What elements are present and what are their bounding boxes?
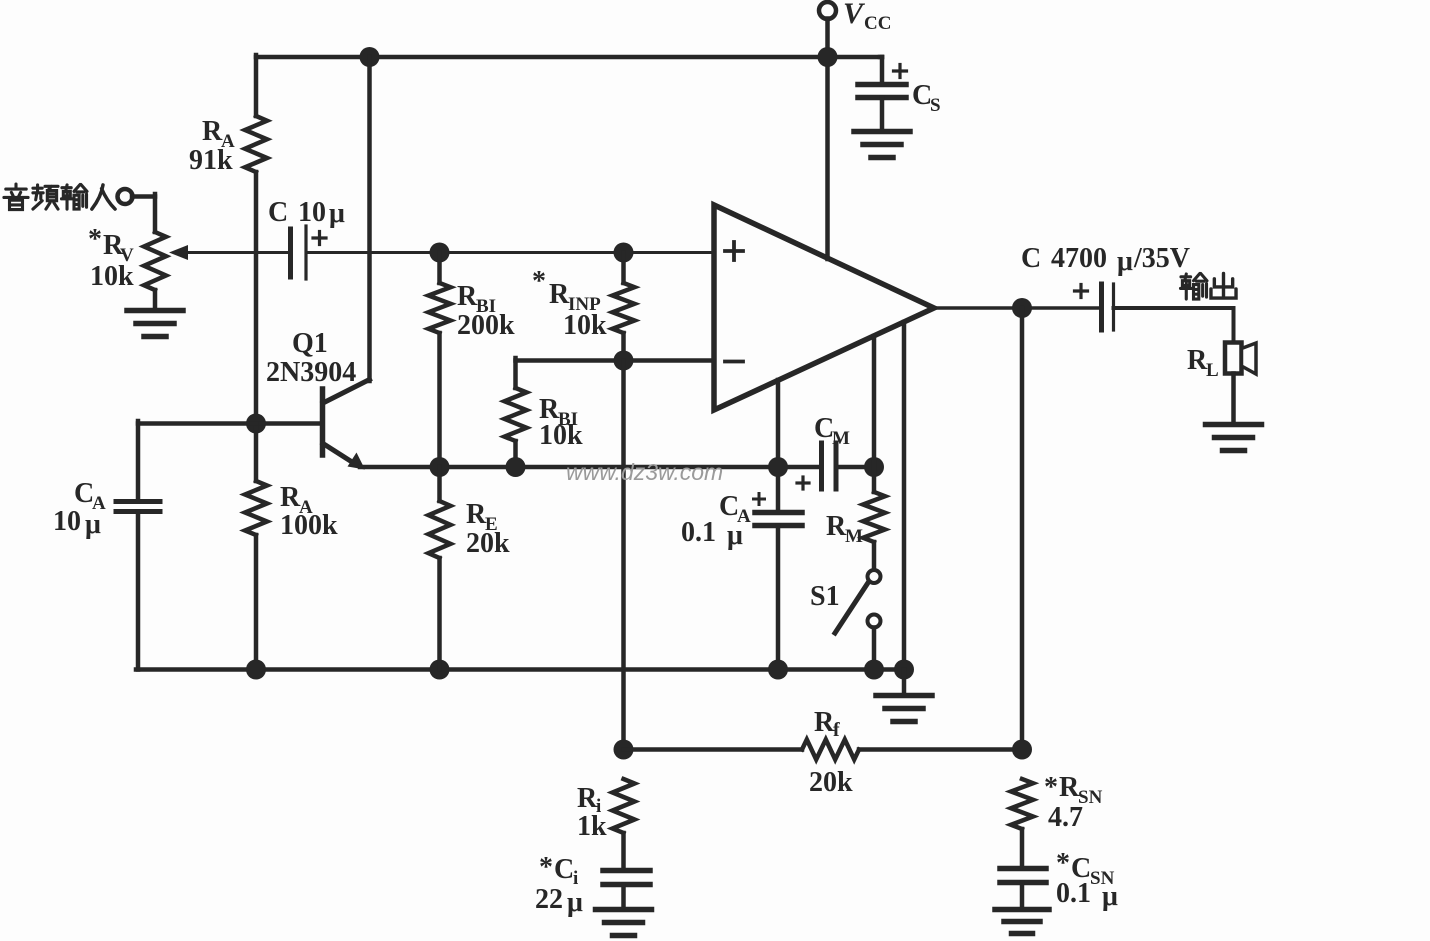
svg-text:R: R <box>457 281 478 312</box>
svg-text:*: * <box>1044 772 1058 803</box>
terminal VCC <box>819 2 836 19</box>
op-amp U1 <box>714 205 934 410</box>
wire base to CA branch <box>138 421 256 500</box>
op-amp minus sign <box>725 360 743 364</box>
terminal audio input <box>118 189 133 204</box>
label CA left <box>74 478 106 514</box>
node emitter RBI200k <box>430 457 450 477</box>
svg-text:R: R <box>814 707 835 738</box>
svg-text:Q1: Q1 <box>292 328 328 359</box>
label RV <box>88 224 134 266</box>
transistor Q1 2N3904 <box>323 380 370 470</box>
svg-text:*: * <box>539 852 553 883</box>
wire Rf left <box>624 747 803 752</box>
svg-text:V: V <box>843 0 866 30</box>
svg-text:i: i <box>573 868 578 889</box>
capacitor CM <box>822 443 837 489</box>
label 91k <box>189 145 233 176</box>
node top rail to collector <box>360 47 380 67</box>
svg-text:R: R <box>466 499 487 530</box>
speaker RL <box>1225 343 1256 375</box>
label RINP <box>532 266 601 315</box>
label S1 <box>810 581 840 612</box>
wire op-amp output <box>934 306 1100 310</box>
svg-text:C: C <box>268 197 288 228</box>
resistor RM <box>863 492 885 542</box>
ground below Ci <box>596 910 652 936</box>
node RBI200k top <box>430 243 450 263</box>
svg-text:L: L <box>1206 360 1219 381</box>
wire RBI10k upper <box>513 358 518 388</box>
wire VCC column <box>825 19 830 260</box>
wire Cs to ground <box>880 98 885 132</box>
wire Ci to ground <box>621 885 626 910</box>
svg-text:R: R <box>826 511 847 542</box>
label Q1 <box>292 328 328 359</box>
svg-text:10: 10 <box>298 197 326 228</box>
svg-text:10: 10 <box>53 506 81 537</box>
svg-text:R: R <box>549 279 570 310</box>
wire inverting input <box>516 358 715 363</box>
plus CA01 <box>754 494 765 505</box>
capacitor C 4700u/35V <box>1102 284 1114 330</box>
wire RA bias column mid <box>254 172 259 424</box>
svg-text:www.dz3w.com: www.dz3w.com <box>566 459 723 485</box>
node output <box>1012 298 1032 318</box>
node ground rail end <box>894 660 914 680</box>
svg-text:2N3904: 2N3904 <box>266 357 356 388</box>
svg-text:0.1: 0.1 <box>681 517 716 548</box>
svg-text:20k: 20k <box>809 767 853 798</box>
capacitor CSN 0.1u <box>1000 869 1046 883</box>
svg-text:0.1: 0.1 <box>1056 878 1091 909</box>
label RV 10k <box>90 261 134 292</box>
resistor Rf 20k <box>802 740 859 760</box>
label audio input 音频输入 <box>4 184 115 210</box>
wire ground stub <box>902 670 907 696</box>
svg-text:*: * <box>1056 848 1070 879</box>
svg-text:μ: μ <box>329 198 345 229</box>
wire input to pot <box>132 194 155 232</box>
node feedback Ri <box>614 740 634 760</box>
svg-text:R: R <box>280 482 301 513</box>
svg-text:C: C <box>554 854 574 885</box>
label RBI10k <box>539 394 578 430</box>
resistor RINP 10k <box>613 283 635 333</box>
ground below RL <box>1206 425 1262 451</box>
label CS <box>912 80 941 116</box>
svg-text:10k: 10k <box>539 420 583 451</box>
node RA100k bottom <box>246 660 266 680</box>
ground below op-amp <box>876 696 932 722</box>
node emitter CA01 <box>768 457 788 477</box>
capacitor CA 0.1u <box>755 513 802 526</box>
label Ci <box>539 852 578 889</box>
label RBI200k <box>457 281 496 317</box>
label RE 20k <box>466 528 510 559</box>
label 2N3904 <box>266 357 356 388</box>
svg-text:91k: 91k <box>189 145 233 176</box>
label RSN 4.7 <box>1048 802 1083 833</box>
wire RA100k lower <box>254 535 259 670</box>
capacitor C 10u <box>291 226 307 279</box>
label Rf <box>814 707 840 741</box>
node emitter RBI10k <box>506 457 526 477</box>
label Ri <box>577 783 601 817</box>
resistor RSN 4.7 <box>1011 779 1033 829</box>
node VCC rail <box>818 47 838 67</box>
node RINP top <box>614 243 634 263</box>
label RE <box>466 499 498 535</box>
resistor Ri 1k <box>613 779 635 833</box>
resistor RBI 10k <box>505 388 527 441</box>
svg-text:μ: μ <box>1102 881 1118 912</box>
ground below RV <box>127 311 183 337</box>
watermark <box>566 459 723 485</box>
wire pot to ground <box>153 290 158 310</box>
svg-text:10k: 10k <box>563 310 607 341</box>
wire output feedback column <box>1020 308 1025 750</box>
wire RINP upper <box>621 253 626 284</box>
capacitor CA 10u <box>116 502 160 512</box>
svg-text:C: C <box>1021 243 1041 274</box>
svg-text:100k: 100k <box>280 510 338 541</box>
label CSN 0.1u <box>1056 878 1118 912</box>
ground below CS <box>854 132 910 158</box>
wire RL to ground <box>1231 374 1236 425</box>
wire feedback column <box>621 361 626 750</box>
resistor RA 100k <box>245 481 267 535</box>
capacitor Ci 22u <box>603 871 650 885</box>
svg-text:*: * <box>532 266 546 297</box>
wire output right <box>1114 308 1234 343</box>
wire collector column <box>367 57 372 381</box>
wire CSN to ground <box>1020 883 1025 910</box>
svg-text:CC: CC <box>864 13 891 34</box>
label Rf 20k <box>809 767 853 798</box>
label CM <box>814 413 850 449</box>
potentiometer RV 10k <box>144 232 166 290</box>
label 100k <box>280 510 338 541</box>
wire RM to switch <box>872 542 877 570</box>
pot wiper arrow <box>169 245 290 260</box>
node Rf RSN <box>1012 740 1032 760</box>
wire CA01 lower <box>776 526 781 670</box>
ground below CSN <box>995 910 1049 934</box>
wire RA100k upper <box>254 424 259 482</box>
wire op-amp to CA01 <box>776 380 781 512</box>
svg-text:S1: S1 <box>810 581 840 612</box>
label CA left 10u <box>53 506 101 540</box>
op-amp plus sign <box>725 242 743 260</box>
svg-text:μ: μ <box>727 520 743 551</box>
wire switch to rail <box>872 628 877 670</box>
svg-text:R: R <box>202 116 223 147</box>
wire RE upper <box>437 467 442 501</box>
wire Cs branch <box>880 57 882 83</box>
node CA01 bottom <box>768 660 788 680</box>
wire base <box>256 421 321 426</box>
plus C4700 <box>1075 285 1088 298</box>
wire RINP lower <box>621 333 626 361</box>
svg-text:μ: μ <box>1117 246 1133 277</box>
wire Rf right <box>859 747 1022 752</box>
wire RBI200k lower <box>437 333 442 467</box>
wire RA bias column top <box>254 55 259 116</box>
resistor RA 91k <box>245 116 267 172</box>
wire top supply rail <box>256 55 882 60</box>
svg-text:f: f <box>833 719 840 741</box>
wire CM to RM <box>837 465 874 470</box>
svg-text:1k: 1k <box>577 811 607 842</box>
label 200k <box>457 310 515 341</box>
label C 10u <box>268 197 345 229</box>
label Ci 22u <box>535 884 583 918</box>
svg-text:*: * <box>88 224 102 255</box>
label RL <box>1187 345 1219 381</box>
label RBI10k value <box>539 420 583 451</box>
node CM RM <box>864 457 884 477</box>
svg-text:μ: μ <box>567 887 583 918</box>
wire emitter row <box>360 465 822 470</box>
node switch bottom <box>864 660 884 680</box>
wire Ri to Ci <box>621 833 626 870</box>
label CSN <box>1056 848 1115 889</box>
label C4700 <box>1021 243 1190 277</box>
label RSN <box>1044 772 1103 808</box>
label RA <box>202 116 235 152</box>
plus Cs <box>894 65 907 78</box>
node RE bottom <box>430 660 450 680</box>
node base <box>246 414 266 434</box>
svg-text:20k: 20k <box>466 528 510 559</box>
svg-text:4700: 4700 <box>1051 243 1107 274</box>
label VCC <box>843 0 891 34</box>
svg-text:10k: 10k <box>90 261 134 292</box>
node inverting input <box>614 351 634 371</box>
wire noninverting input <box>306 251 714 254</box>
svg-text:R: R <box>1187 345 1208 376</box>
wire op-amp ground pin <box>902 322 907 670</box>
svg-text:/35V: /35V <box>1133 243 1190 274</box>
svg-text:200k: 200k <box>457 310 515 341</box>
wire RE lower <box>437 558 442 670</box>
switch S1 <box>835 570 881 633</box>
label CA mid 0.1u <box>681 517 743 551</box>
svg-text:M: M <box>845 526 863 547</box>
label CA mid <box>719 491 751 527</box>
label output 输出 <box>1180 273 1236 299</box>
svg-text:μ: μ <box>85 509 101 540</box>
wire CA branch lower <box>136 512 141 670</box>
svg-text:4.7: 4.7 <box>1048 802 1083 833</box>
wire RBI10k lower <box>513 441 518 467</box>
wire bottom rail <box>136 667 904 672</box>
plus C 10u <box>313 232 326 245</box>
svg-text:S: S <box>930 95 941 116</box>
label Ri 1k <box>577 811 607 842</box>
wire RSN to CSN <box>1020 829 1025 868</box>
wire RBI200k upper <box>437 253 442 284</box>
svg-text:22: 22 <box>535 884 563 915</box>
resistor RE 20k <box>429 501 451 558</box>
svg-text:R: R <box>1059 772 1080 803</box>
plus CM <box>797 477 809 489</box>
label RM <box>826 511 863 547</box>
svg-text:R: R <box>577 783 598 814</box>
capacitor CS <box>858 85 906 98</box>
wire op-amp to RM <box>872 336 877 492</box>
label RINP 10k <box>563 310 607 341</box>
resistor RBI 200k <box>429 283 451 333</box>
label RA100k <box>280 482 313 518</box>
